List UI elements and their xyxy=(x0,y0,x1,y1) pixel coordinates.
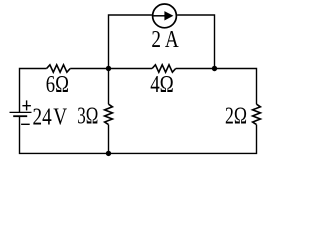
wire middle vertical lower xyxy=(108,125,110,154)
wire right vertical lower + bottom rail + left vertical lower xyxy=(20,116,257,153)
wire rail between 6ohm and 4ohm xyxy=(70,68,152,70)
node dot left-middle junction xyxy=(106,66,111,71)
resistor R 4ohm zigzag xyxy=(152,65,176,72)
resistor R 3ohm zigzag xyxy=(105,104,113,124)
battery V1 long plate (+) xyxy=(10,111,32,113)
current source arrow shaft xyxy=(154,15,167,17)
svg-text:6Ω: 6Ω xyxy=(46,72,69,98)
battery V1 short plate (-) xyxy=(13,115,27,117)
svg-text:24 V: 24 V xyxy=(33,105,68,131)
current source arrow head xyxy=(164,11,173,20)
node dot right-middle junction xyxy=(212,66,217,71)
resistor R 2ohm zigzag xyxy=(253,104,261,124)
battery minus sign xyxy=(21,123,30,125)
node dot bottom junction xyxy=(106,151,111,156)
wire rail from 4ohm to top-right corner and down right side xyxy=(176,69,257,105)
battery plus sign xyxy=(22,100,31,110)
resistor R 6ohm zigzag xyxy=(47,65,71,72)
wire middle vertical upper xyxy=(108,69,110,105)
wire top loop top-right segment and right vertical xyxy=(177,15,214,69)
wire top loop left vertical and top-left segment xyxy=(109,15,152,69)
current source I1 circle xyxy=(153,4,177,28)
svg-text:2 A: 2 A xyxy=(151,27,179,53)
wire left vertical upper + top-left corner + rail to 6ohm xyxy=(20,69,47,113)
svg-text:4Ω: 4Ω xyxy=(150,72,174,98)
svg-text:2Ω: 2Ω xyxy=(225,104,247,130)
svg-text:3Ω: 3Ω xyxy=(77,103,98,129)
